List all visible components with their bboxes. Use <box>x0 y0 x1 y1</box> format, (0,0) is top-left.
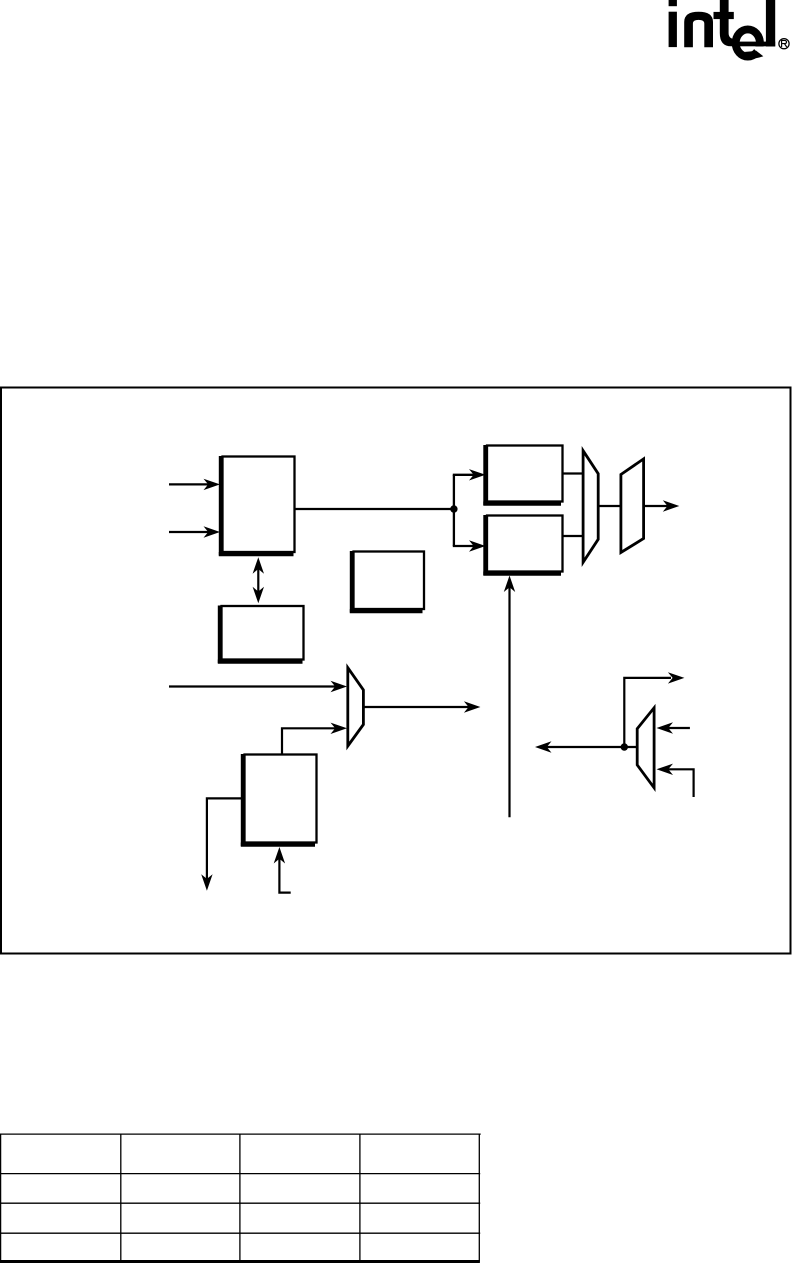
arrow input 2 into B1 <box>169 526 220 537</box>
arrow output from P1 <box>644 500 680 511</box>
arrow up into B6 bottom with stub <box>274 847 291 893</box>
mux M2 (right side multiplexer trapezoid) <box>637 708 654 788</box>
diagram frame <box>1 388 791 954</box>
wire from B6 left side down arrow <box>201 798 244 890</box>
arrow into B5 <box>453 540 486 551</box>
wire junction vertical branch <box>453 475 455 546</box>
arrow input 2 into M2 with stub <box>657 764 694 797</box>
table grid <box>0 1134 481 1261</box>
block B2 (lower left small block) <box>218 606 304 664</box>
double-headed arrow between B1 and B2 <box>253 557 264 603</box>
wire from B1 output to junction <box>295 508 454 510</box>
junction dot <box>450 505 457 512</box>
long horizontal arrow into mux M3 <box>169 681 347 692</box>
block B3 (middle isolated block) <box>350 551 424 613</box>
wire up from junction with right arrow <box>624 672 684 747</box>
arrow input 1 into B1 <box>169 479 220 490</box>
arrow input 1 into M2 <box>657 722 690 733</box>
block B1 (large block, upper left) <box>219 456 295 556</box>
arrow output from M3 <box>363 701 480 712</box>
arrow output left from M2 <box>535 741 637 752</box>
registered trademark symbol <box>779 39 789 49</box>
wire B5 to mux M1 <box>563 535 584 537</box>
buffer P1 (output driver parallelogram) <box>621 459 644 553</box>
arrow into B4 <box>453 469 486 480</box>
block B4 (upper right block 1) <box>483 445 562 505</box>
table bottom border <box>0 1260 480 1263</box>
block B6 (bottom block) <box>241 754 317 846</box>
block B5 (upper right block 2) <box>483 515 562 575</box>
wire M1 to buffer P1 <box>598 505 621 507</box>
mux M3 (center multiplexer trapezoid) <box>348 668 364 746</box>
mux M1 (output multiplexer trapezoid) <box>583 451 598 563</box>
intel logo <box>669 0 776 59</box>
long vertical arrow up into B5 <box>504 576 515 818</box>
wire from B6 top to mux M3 input <box>282 723 347 754</box>
wire B4 to mux M1 <box>563 472 584 474</box>
junction dot on M2 output <box>621 743 628 750</box>
